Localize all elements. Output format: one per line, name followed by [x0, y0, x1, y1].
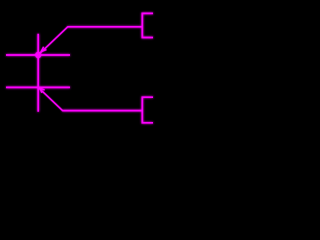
node: junction dot: [35, 52, 41, 58]
wire: lower diagonal: [38, 87, 62, 110]
wire: upper diagonal: [38, 27, 68, 55]
wire: upper horizontal to top connector: [67, 26, 142, 28]
arrowhead on lower diagonal: [40, 88, 45, 93]
arrowhead on upper diagonal: [41, 47, 46, 52]
wire: lower-left horizontal: [6, 86, 70, 88]
connector: bottom bracket: [142, 97, 153, 123]
connector: top bracket: [142, 13, 153, 37]
wire: lower horizontal to bottom connector: [62, 110, 142, 112]
wire: upper-left horizontal: [6, 54, 70, 56]
wire: central vertical: [37, 34, 39, 112]
